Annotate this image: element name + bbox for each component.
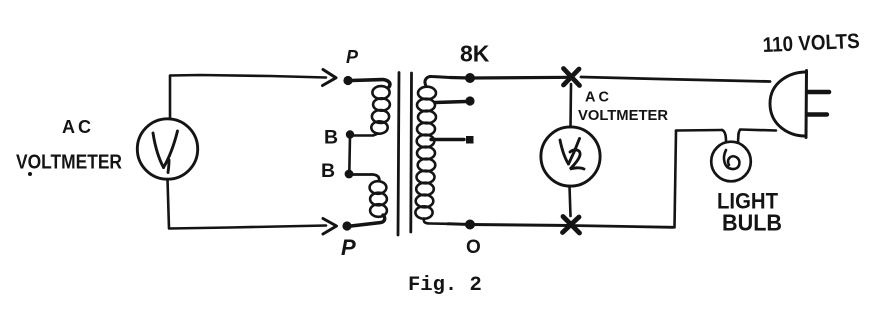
wire light bulb to plug: [740, 130, 776, 131]
transformer primary top coil lead-in: [351, 80, 390, 88]
svg-text:110 VOLTS: 110 VOLTS: [762, 30, 860, 57]
wire secondary bottom to X junction: [448, 224, 571, 226]
wire V1 bottom lead to transformer primary bottom: [168, 179, 327, 229]
transformer core right bar: [409, 73, 413, 232]
transformer secondary coil loops: [418, 87, 436, 100]
transformer primary top coil lead-out to B: [353, 134, 378, 136]
svg-text:O: O: [466, 237, 481, 258]
transformer primary top coil loops: [372, 86, 389, 99]
node 8K terminal dot: [465, 73, 475, 83]
transformer secondary coil lead-in top: [425, 76, 450, 86]
wire arrowhead into top P terminal: [323, 70, 337, 86]
X junction top (test point): [564, 69, 580, 86]
node P top terminal dot: [343, 76, 352, 85]
plug body flat side: [805, 71, 809, 138]
label V1 inside meter: [153, 131, 178, 173]
label V2 inside meter: [560, 139, 584, 170]
svg-text:BULB: BULB: [722, 210, 782, 236]
plug prong bottom: [808, 112, 827, 116]
svg-text:VOLTMETER: VOLTMETER: [16, 152, 122, 174]
voltmeter V1: [137, 119, 197, 179]
wire secondary tap 1: [435, 102, 466, 103]
plug prong top: [808, 90, 829, 95]
wire X top down to voltmeter V2: [569, 84, 572, 127]
transformer primary bottom coil lead-out: [351, 215, 385, 226]
svg-text:Fig. 2: Fig. 2: [408, 274, 482, 297]
svg-text:VOLTMETER: VOLTMETER: [578, 108, 669, 124]
node O terminal dot: [465, 220, 475, 230]
transformer primary bottom coil loops: [370, 181, 387, 194]
node P bottom terminal dot: [342, 221, 351, 230]
wire V2 bottom to X bottom: [570, 186, 571, 216]
svg-text:P: P: [346, 47, 359, 67]
node tap 1 dot: [465, 96, 474, 105]
svg-text:AC: AC: [585, 90, 612, 106]
transformer secondary coil lead-out bottom: [424, 219, 448, 224]
light bulb left lead: [722, 130, 726, 141]
svg-text:B: B: [324, 127, 338, 149]
stray ink dot under left VOLTMETER: [28, 172, 32, 176]
transformer core left bar: [398, 73, 399, 236]
light bulb filament: [724, 150, 739, 169]
wire riser to light bulb: [676, 129, 722, 132]
node B bottom terminal dot: [345, 170, 354, 179]
svg-text:8K: 8K: [460, 41, 490, 67]
wire secondary tap 2: [431, 138, 464, 141]
node B top terminal dot: [346, 130, 354, 138]
wire top X to plug: [581, 77, 770, 82]
plug body arc: [770, 72, 806, 136]
X junction bottom (test point): [563, 217, 580, 234]
wire between B terminals: [348, 136, 351, 173]
svg-text:AC: AC: [62, 117, 94, 137]
svg-text:B: B: [321, 160, 335, 182]
transformer primary bottom coil lead-in from B: [351, 175, 379, 182]
svg-text:P: P: [341, 235, 356, 260]
wire V1 top lead to transformer primary top: [170, 75, 326, 119]
wire secondary top to X junction: [450, 76, 571, 80]
wire arrowhead into bottom P terminal: [323, 219, 337, 235]
wire bottom X to right riser: [571, 226, 673, 228]
light bulb right lead: [738, 130, 740, 142]
node tap 2 dot: [466, 136, 474, 144]
light bulb envelope: [711, 142, 751, 182]
voltmeter V2: [541, 127, 600, 186]
wire right riser up: [675, 131, 677, 227]
